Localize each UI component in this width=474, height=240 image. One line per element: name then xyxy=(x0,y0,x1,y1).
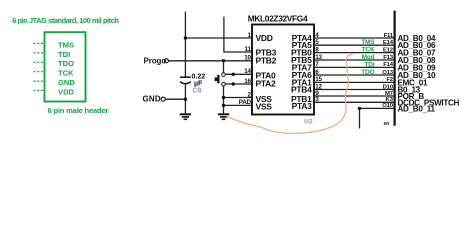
wire: net to U2 pin 11 PTB3 with vertical stub xyxy=(224,17,252,52)
svg-text:16: 16 xyxy=(244,78,251,85)
wire: U2 pin 16 PTA2 stub xyxy=(225,83,252,85)
IC U2 left pin labels VDD PTB3 PTB2 PTA0 PTA2 VSS VSS xyxy=(256,33,277,111)
svg-text:C8: C8 xyxy=(193,88,202,95)
svg-text:O10: O10 xyxy=(382,103,393,109)
svg-text:TDI: TDI xyxy=(364,61,374,68)
wire: Progo net to U2 pin 10 PTB2 xyxy=(169,60,253,62)
pushbutton S1 actuator nub xyxy=(215,77,218,81)
svg-text:F11: F11 xyxy=(384,33,394,39)
svg-text:6 pin JTAG standard, 100 mil p: 6 pin JTAG standard, 100 mil pitch xyxy=(12,16,119,25)
svg-text:TCK: TCK xyxy=(362,47,375,54)
svg-text:GND: GND xyxy=(58,78,75,87)
svg-text:F2: F2 xyxy=(386,77,393,83)
annotation: orange freehand highlight curve xyxy=(227,54,352,133)
IC U3 pin designators F11 E14 E12 F13 F14 O13 F2 D10 M7 K3 O10 xyxy=(382,33,393,109)
wire: U2 PTB4 to U3 D10 xyxy=(314,89,395,91)
svg-text:K3: K3 xyxy=(386,97,394,103)
wire: VDD net vertical segment xyxy=(184,12,186,77)
IC U2 right pin numbers 4 5 8 13 7 6 15 12 9 3 xyxy=(315,32,322,103)
svg-text:Progo: Progo xyxy=(144,56,167,65)
wire: U2 PTA1 to U3 F2 xyxy=(314,81,395,83)
pushbutton S1 bottom contact xyxy=(222,82,226,86)
svg-text:10: 10 xyxy=(244,54,251,61)
wire: button S1 bottom contact to ground xyxy=(223,86,225,114)
wire: AD_B0_11 stub to U3 O10 xyxy=(360,107,395,109)
wire: U2 PTA3 to U3 K3 xyxy=(314,101,395,103)
ground symbol under button / VSS xyxy=(218,114,229,119)
junction on PTA0 stub xyxy=(232,73,235,76)
svg-text:TCK: TCK xyxy=(58,69,74,78)
svg-text:PTA3: PTA3 xyxy=(292,101,312,111)
junction Progo net to button branch xyxy=(222,59,225,62)
connector J1 6-pin male header body xyxy=(45,32,86,101)
capacitor C8 plates xyxy=(180,77,191,84)
svg-text:PAD: PAD xyxy=(239,99,252,106)
svg-text:AD_B0_11: AD_B0_11 xyxy=(398,104,436,113)
svg-text:PTA2: PTA2 xyxy=(256,79,276,89)
wire: TDO net U2 PTA6 to U3 O13 xyxy=(314,74,395,76)
svg-text:TMS: TMS xyxy=(58,40,74,49)
svg-text:TDO: TDO xyxy=(361,69,374,76)
wire: U2 PTA4 to U3 F11 xyxy=(314,37,395,39)
IC U2 right pin labels PTA4 PTA5 PTB0 PTB5 PTA7 PTA6 PTA1 PTB4 PTB1 PTA3 xyxy=(291,33,312,111)
IC U2 left pin numbers 1 11 10 14 16 2 PAD xyxy=(239,32,252,106)
junction on VDD net at C8 top xyxy=(184,36,187,39)
wire: U2 pin 14 PTA0 stub xyxy=(225,73,252,75)
svg-text:F14: F14 xyxy=(383,62,393,68)
connector J1 pin leads xyxy=(34,44,45,91)
svg-text:PTB2: PTB2 xyxy=(256,56,277,66)
node Progo terminal circle xyxy=(164,59,168,63)
wire: TDI net U2 PTA7 to U3 F14 xyxy=(314,66,395,68)
svg-text:TDI: TDI xyxy=(58,50,70,59)
svg-text:MKL02Z32VFG4: MKL02Z32VFG4 xyxy=(248,13,308,23)
svg-text:O13: O13 xyxy=(382,70,393,76)
junction GND terminal net at C8 bottom xyxy=(184,98,187,101)
net labels TMS TCK Mod TDI TDO xyxy=(361,39,375,76)
svg-text:E12: E12 xyxy=(383,47,394,53)
wire: U2 PTB1 to U3 M7 xyxy=(314,95,395,97)
svg-text:14: 14 xyxy=(244,68,251,75)
svg-text:11: 11 xyxy=(245,46,252,53)
svg-text:M7: M7 xyxy=(385,91,394,97)
svg-text:en: en xyxy=(384,121,390,127)
connector J1 pin names TMS TDI TDO TCK GND VDD xyxy=(58,40,75,96)
wire: GND terminal to C8 net xyxy=(165,98,185,100)
wire: AD_B0_11 vertical dangle xyxy=(359,108,361,128)
wire: VDD net to U2 pin 1 xyxy=(185,37,252,39)
svg-text:µF: µF xyxy=(194,80,203,87)
svg-text:VDD: VDD xyxy=(256,33,273,43)
ground symbol under C8 xyxy=(180,114,191,119)
junction on AD_B0_11 stub xyxy=(358,107,361,110)
svg-text:TDO: TDO xyxy=(58,59,74,68)
svg-text:6 pin male header: 6 pin male header xyxy=(48,106,109,115)
node GND terminal circle xyxy=(161,97,165,101)
junction VSS pin 2 to ground line xyxy=(222,96,225,99)
pushbutton S1 top contact xyxy=(222,73,226,77)
junction VSS PAD to ground line xyxy=(222,104,225,107)
svg-text:TMS: TMS xyxy=(361,39,375,46)
pushbutton S1 actuator bar xyxy=(217,75,219,83)
wire: U2 PAD VSS to ground net xyxy=(224,104,253,106)
svg-text:GND: GND xyxy=(143,95,161,104)
wire: Progo net down to button S1 top contact xyxy=(223,61,225,73)
svg-text:U2: U2 xyxy=(304,119,313,126)
svg-text:Mod: Mod xyxy=(362,54,375,61)
svg-text:F13: F13 xyxy=(383,55,393,61)
wire: TMS net U2 PTA5 to U3 E14 xyxy=(314,44,395,46)
svg-text:VSS: VSS xyxy=(256,101,273,111)
IC U3 left body edge (cropped at right) xyxy=(394,11,396,126)
IC U3 pin names AD_B0_04 .. AD_B0_11 xyxy=(398,34,460,113)
wire: C8 bottom plate to ground xyxy=(184,85,186,114)
svg-text:VDD: VDD xyxy=(58,87,75,96)
wire: Mod net U2 PTB5 to U3 F13 xyxy=(314,59,395,61)
wire: U2 pin 2 VSS to ground net xyxy=(224,97,253,99)
svg-text:E14: E14 xyxy=(383,40,394,46)
svg-text:D10: D10 xyxy=(383,84,394,90)
junction on PTA2 stub xyxy=(232,82,235,85)
wire: TCK net U2 PTB0 to U3 E12 xyxy=(314,52,395,54)
IC U2 body xyxy=(252,25,314,115)
